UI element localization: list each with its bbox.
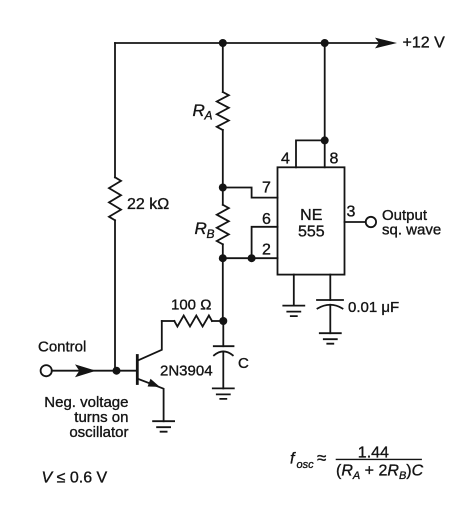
svg-text:NE: NE <box>300 207 322 224</box>
svg-text:8: 8 <box>330 151 339 168</box>
svg-text:sq. wave: sq. wave <box>382 222 441 239</box>
svg-text:osc: osc <box>297 459 315 471</box>
svg-text:C: C <box>238 355 249 372</box>
svg-text:100 Ω: 100 Ω <box>171 297 211 314</box>
svg-text:2N3904: 2N3904 <box>160 363 213 380</box>
svg-text:A: A <box>204 109 213 123</box>
svg-text:4: 4 <box>281 151 290 168</box>
svg-text:oscillator: oscillator <box>69 424 128 441</box>
svg-text:22 kΩ: 22 kΩ <box>127 196 169 213</box>
svg-text:+12 V: +12 V <box>403 35 446 52</box>
svg-text:7: 7 <box>262 180 271 197</box>
svg-text:R: R <box>193 101 205 120</box>
svg-text:f: f <box>290 451 296 468</box>
svg-text:555: 555 <box>298 224 325 241</box>
svg-text:R: R <box>195 219 207 238</box>
svg-text:V ≤ 0.6 V: V ≤ 0.6 V <box>42 469 108 486</box>
svg-text:Control: Control <box>38 339 86 356</box>
svg-text:6: 6 <box>262 211 271 228</box>
svg-text:2: 2 <box>262 242 271 259</box>
svg-text:≈: ≈ <box>317 449 326 468</box>
svg-text:1.44: 1.44 <box>358 445 389 462</box>
svg-text:3: 3 <box>347 204 356 221</box>
svg-text:(RA + 2RB)C: (RA + 2RB)C <box>336 463 424 483</box>
svg-text:0.01 μF: 0.01 μF <box>348 299 399 316</box>
svg-text:B: B <box>207 227 215 241</box>
